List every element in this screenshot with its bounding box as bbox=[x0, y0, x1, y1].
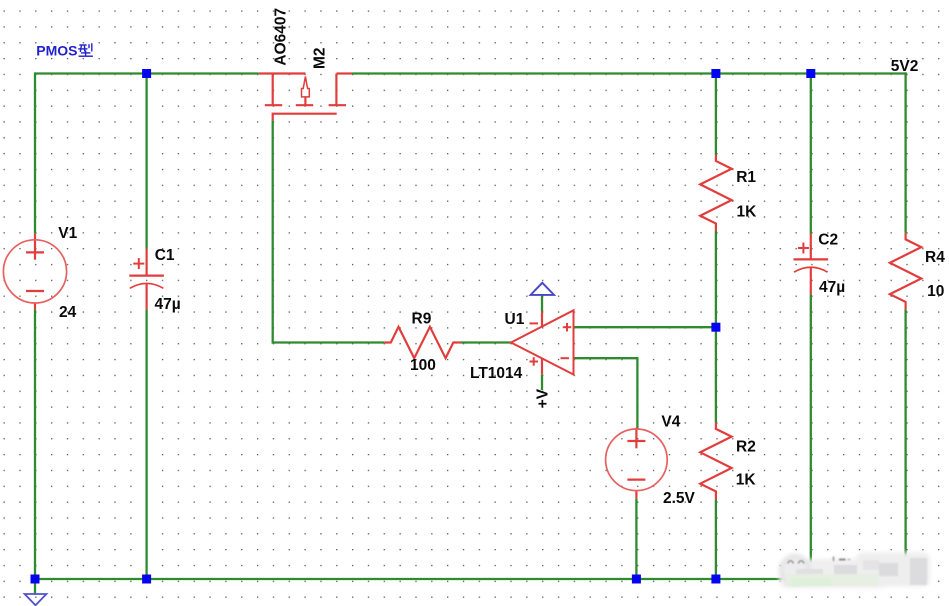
svg-text:PMOS: PMOS bbox=[36, 43, 77, 59]
svg-text:M2: M2 bbox=[312, 47, 329, 69]
svg-text:R9: R9 bbox=[412, 310, 432, 327]
svg-text:R1: R1 bbox=[736, 169, 756, 186]
svg-text:+V: +V bbox=[534, 388, 551, 408]
svg-text:100: 100 bbox=[410, 357, 436, 374]
svg-text:LT1014: LT1014 bbox=[470, 365, 523, 382]
svg-text:R2: R2 bbox=[736, 438, 756, 455]
svg-text:1K: 1K bbox=[736, 471, 757, 488]
svg-text:47µ: 47µ bbox=[155, 296, 181, 313]
svg-text:C1: C1 bbox=[155, 247, 175, 264]
svg-text:1K: 1K bbox=[737, 204, 758, 221]
svg-text:47µ: 47µ bbox=[819, 279, 845, 296]
svg-text:V1: V1 bbox=[58, 225, 77, 242]
svg-text:R4: R4 bbox=[925, 249, 945, 266]
svg-text:AO6407: AO6407 bbox=[272, 8, 289, 66]
svg-text:24: 24 bbox=[59, 304, 77, 321]
svg-text:C2: C2 bbox=[818, 232, 838, 249]
svg-text:2.5V: 2.5V bbox=[663, 490, 696, 507]
svg-text:10: 10 bbox=[927, 283, 944, 300]
svg-text:V4: V4 bbox=[661, 414, 680, 431]
svg-text:5V2: 5V2 bbox=[891, 58, 919, 75]
svg-text:U1: U1 bbox=[505, 311, 525, 328]
